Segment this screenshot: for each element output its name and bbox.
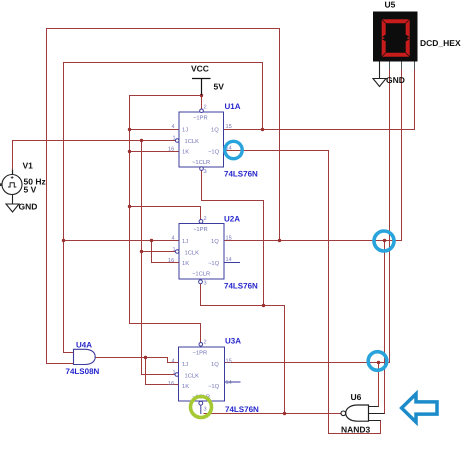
svg-text:74LS76N: 74LS76N (224, 282, 258, 291)
svg-text:~1Q: ~1Q (208, 383, 220, 390)
svg-text:V1: V1 (23, 161, 34, 171)
svg-text:3: 3 (204, 407, 207, 413)
svg-text:2: 2 (204, 216, 207, 222)
svg-text:74LS08N: 74LS08N (66, 367, 100, 376)
svg-text:1J: 1J (182, 128, 188, 134)
svg-text:15: 15 (226, 124, 232, 130)
svg-text:DCD_HEX: DCD_HEX (420, 38, 461, 48)
svg-text:15: 15 (226, 236, 232, 242)
svg-text:NAND3: NAND3 (341, 425, 371, 435)
svg-text:1CLK: 1CLK (185, 373, 200, 380)
svg-text:4: 4 (172, 359, 175, 365)
svg-text:5 V: 5 V (24, 185, 37, 195)
svg-text:1: 1 (173, 370, 176, 376)
svg-text:1: 1 (173, 247, 176, 253)
svg-text:16: 16 (168, 381, 174, 387)
svg-text:U5: U5 (385, 0, 396, 10)
svg-text:74LS76N: 74LS76N (225, 405, 259, 414)
svg-text:2: 2 (204, 340, 207, 346)
svg-text:1Q: 1Q (211, 361, 219, 368)
svg-text:U3A: U3A (225, 337, 241, 346)
svg-text:~1CLR: ~1CLR (192, 271, 210, 278)
svg-text:GND: GND (19, 202, 38, 212)
svg-text:4: 4 (172, 124, 175, 130)
svg-text:74LS76N: 74LS76N (224, 170, 258, 179)
svg-text:U2A: U2A (224, 215, 240, 224)
svg-text:1CLK: 1CLK (185, 250, 200, 257)
svg-text:1K: 1K (182, 150, 189, 156)
svg-text:15: 15 (226, 359, 232, 365)
svg-text:~1CLR: ~1CLR (192, 159, 210, 166)
svg-text:16: 16 (168, 147, 174, 153)
svg-text:3: 3 (204, 169, 207, 175)
svg-text:1J: 1J (182, 362, 188, 368)
svg-text:2: 2 (204, 105, 207, 111)
svg-text:U1A: U1A (225, 102, 241, 111)
svg-text:1: 1 (173, 136, 176, 142)
svg-text:~1PR: ~1PR (193, 351, 208, 357)
svg-text:4: 4 (172, 236, 175, 242)
svg-text:VCC: VCC (191, 64, 209, 74)
svg-text:14: 14 (226, 257, 232, 263)
svg-text:5V: 5V (214, 82, 225, 92)
svg-text:1Q: 1Q (211, 238, 219, 245)
svg-text:1K: 1K (182, 261, 189, 267)
svg-text:1Q: 1Q (211, 127, 219, 134)
svg-text:U6: U6 (351, 392, 362, 402)
svg-text:3: 3 (204, 281, 207, 287)
svg-text:~1PR: ~1PR (193, 227, 208, 233)
svg-text:1K: 1K (182, 384, 189, 390)
svg-text:~1Q: ~1Q (208, 149, 220, 156)
svg-text:1CLK: 1CLK (185, 138, 200, 145)
svg-text:1J: 1J (182, 239, 188, 245)
svg-text:16: 16 (168, 258, 174, 264)
svg-text:14: 14 (226, 380, 232, 386)
svg-text:~1Q: ~1Q (208, 260, 220, 267)
svg-text:GND: GND (386, 75, 405, 85)
svg-text:~1PR: ~1PR (193, 116, 208, 122)
svg-text:U4A: U4A (76, 341, 92, 350)
